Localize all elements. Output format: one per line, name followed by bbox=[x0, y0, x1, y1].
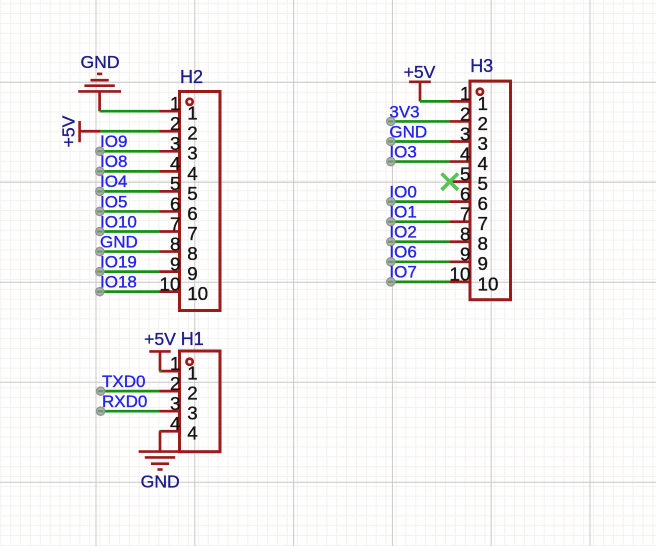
svg-text:3: 3 bbox=[478, 133, 488, 154]
svg-text:1: 1 bbox=[170, 93, 180, 114]
svg-text:8: 8 bbox=[170, 233, 180, 254]
ground symbol GND (H2 pin 1) bbox=[78, 74, 121, 111]
svg-text:8: 8 bbox=[478, 233, 488, 254]
svg-text:H1: H1 bbox=[181, 329, 204, 349]
svg-text:GND: GND bbox=[141, 471, 180, 491]
svg-text:3: 3 bbox=[170, 133, 180, 154]
H2 pin 9 stub bbox=[160, 270, 180, 273]
svg-text:H3: H3 bbox=[470, 56, 493, 76]
H2 pin 4 stub bbox=[160, 170, 180, 173]
svg-text:IO8: IO8 bbox=[100, 152, 127, 171]
dangling wire end at H2 pin 8 net bbox=[96, 247, 104, 255]
svg-text:8: 8 bbox=[187, 243, 197, 264]
H1 pin 2 stub bbox=[160, 390, 180, 393]
H3 pin 3 stub bbox=[450, 140, 470, 143]
H2 pin 6 stub bbox=[160, 210, 180, 213]
dangling wire end at H3 pin 8 net bbox=[387, 238, 395, 246]
svg-text:10: 10 bbox=[450, 264, 471, 285]
H3 pin 1 polarity marker bbox=[477, 89, 483, 95]
svg-text:2: 2 bbox=[478, 113, 488, 134]
svg-text:2: 2 bbox=[170, 373, 180, 394]
wire net IO8 to H2 pin 4 bbox=[104, 170, 160, 173]
dangling wire end at H2 pin 3 net bbox=[96, 147, 104, 155]
H3 pin 9 stub bbox=[450, 260, 470, 263]
dangling wire end at H2 pin 10 net bbox=[96, 288, 104, 296]
svg-text:3: 3 bbox=[187, 143, 197, 164]
svg-text:5: 5 bbox=[478, 173, 488, 194]
svg-text:4: 4 bbox=[478, 153, 488, 174]
wire net 3V3 to H3 pin 2 bbox=[395, 120, 450, 123]
wire net GND to H2 pin 8 bbox=[104, 250, 160, 253]
H3 pin 5 stub bbox=[450, 180, 470, 183]
wire net IO0 to H3 pin 6 bbox=[395, 200, 450, 203]
svg-text:9: 9 bbox=[187, 263, 197, 284]
svg-text:IO4: IO4 bbox=[100, 172, 127, 191]
H3 pin 1 stub bbox=[450, 100, 470, 103]
H3 pin 7 stub bbox=[450, 220, 470, 223]
svg-text:2: 2 bbox=[170, 113, 180, 134]
ground symbol GND (H1 pin 4) bbox=[139, 431, 182, 469]
svg-text:9: 9 bbox=[478, 253, 488, 274]
supply symbol +5V (H2 pin 2) bbox=[80, 121, 101, 142]
dangling wire end at H3 pin 4 net bbox=[387, 157, 395, 165]
dangling wire end at H2 pin 5 net bbox=[96, 187, 104, 195]
dangling wire end at H3 pin 9 net bbox=[387, 258, 395, 266]
svg-text:1: 1 bbox=[478, 93, 488, 114]
svg-text:1: 1 bbox=[187, 363, 197, 384]
H1 pin 1 stub bbox=[160, 370, 180, 373]
svg-text:6: 6 bbox=[460, 183, 470, 204]
H3 pin 10 stub bbox=[450, 281, 470, 284]
svg-text:+5V: +5V bbox=[58, 115, 78, 147]
wire end dot at H1 pin 4 corner bbox=[159, 430, 161, 432]
wire net IO2 to H3 pin 8 bbox=[395, 240, 450, 243]
svg-text:GND: GND bbox=[80, 52, 119, 72]
wire +5V to H3 pin 1 bbox=[420, 100, 450, 103]
svg-text:4: 4 bbox=[187, 163, 197, 184]
wire net IO10 to H2 pin 7 bbox=[104, 230, 160, 233]
svg-text:8: 8 bbox=[460, 224, 470, 245]
svg-text:9: 9 bbox=[460, 244, 470, 265]
dangling wire end at H1 pin 2 net bbox=[97, 387, 105, 395]
svg-text:1: 1 bbox=[187, 103, 197, 124]
wire net IO9 to H2 pin 3 bbox=[104, 150, 160, 153]
svg-text:10: 10 bbox=[160, 273, 181, 294]
connector H2 body bbox=[180, 92, 221, 311]
dangling wire end at H3 pin 7 net bbox=[387, 218, 395, 226]
svg-text:IO18: IO18 bbox=[100, 272, 137, 291]
svg-text:10: 10 bbox=[478, 273, 499, 294]
svg-text:GND: GND bbox=[100, 232, 138, 251]
svg-text:GND: GND bbox=[389, 122, 427, 141]
svg-text:4: 4 bbox=[170, 153, 180, 174]
connector H3 body bbox=[470, 81, 511, 300]
connector H1 body bbox=[180, 351, 221, 452]
H2 pin 8 stub bbox=[160, 250, 180, 253]
svg-text:RXD0: RXD0 bbox=[102, 392, 147, 411]
wire +5V to H2 pin 2 bbox=[101, 130, 160, 133]
svg-text:5: 5 bbox=[187, 183, 197, 204]
H3 pin 4 stub bbox=[450, 160, 470, 163]
svg-text:TXD0: TXD0 bbox=[102, 372, 145, 391]
wire net RXD0 to H1 pin 3 bbox=[105, 410, 160, 413]
wire net IO7 to H3 pin 10 bbox=[395, 281, 450, 284]
svg-text:3: 3 bbox=[187, 403, 197, 424]
svg-text:IO10: IO10 bbox=[100, 212, 137, 231]
H2 pin 3 stub bbox=[160, 150, 180, 153]
H3 pin 6 stub bbox=[450, 200, 470, 203]
svg-text:9: 9 bbox=[170, 253, 180, 274]
wire GND to H2 pin 1 bbox=[100, 110, 160, 113]
wire net IO6 to H3 pin 9 bbox=[395, 260, 450, 263]
svg-text:1: 1 bbox=[460, 83, 470, 104]
svg-text:IO5: IO5 bbox=[100, 192, 127, 211]
H1 pin 4 stub bbox=[160, 430, 180, 433]
H2 pin 1 polarity marker bbox=[187, 99, 193, 105]
svg-text:4: 4 bbox=[170, 413, 180, 434]
wire net IO1 to H3 pin 7 bbox=[395, 220, 450, 223]
H3 pin 2 stub bbox=[450, 120, 470, 123]
dangling wire end at H3 pin 10 net bbox=[387, 278, 395, 286]
dangling wire end at H3 pin 2 net bbox=[387, 117, 395, 125]
svg-text:IO19: IO19 bbox=[100, 252, 137, 271]
svg-text:5: 5 bbox=[460, 163, 470, 184]
H1 pin 3 stub bbox=[160, 410, 180, 413]
svg-text:3: 3 bbox=[170, 393, 180, 414]
supply symbol +5V (H1 pin 1) bbox=[149, 351, 170, 371]
svg-text:7: 7 bbox=[187, 223, 197, 244]
wire net IO19 to H2 pin 9 bbox=[104, 270, 160, 273]
wire net TXD0 to H1 pin 2 bbox=[105, 390, 160, 393]
svg-text:1: 1 bbox=[170, 353, 180, 374]
svg-text:4: 4 bbox=[187, 423, 197, 444]
dangling wire end at H2 pin 4 net bbox=[96, 167, 104, 175]
H2 pin 2 stub bbox=[160, 130, 180, 133]
H2 pin 5 stub bbox=[160, 190, 180, 193]
svg-text:2: 2 bbox=[187, 123, 197, 144]
wire net IO5 to H2 pin 6 bbox=[104, 210, 160, 213]
svg-text:2: 2 bbox=[460, 103, 470, 124]
svg-text:7: 7 bbox=[170, 213, 180, 234]
svg-text:IO9: IO9 bbox=[100, 132, 127, 151]
svg-text:5: 5 bbox=[170, 173, 180, 194]
svg-text:6: 6 bbox=[478, 193, 488, 214]
wire net IO18 to H2 pin 10 bbox=[104, 290, 160, 293]
H2 pin 10 stub bbox=[160, 290, 180, 293]
cursor cross marker at H3 pin 5 bbox=[442, 174, 458, 190]
dangling wire end at H1 pin 3 net bbox=[97, 407, 105, 415]
dangling wire end at H2 pin 7 net bbox=[96, 227, 104, 235]
wire net IO4 to H2 pin 5 bbox=[104, 190, 160, 193]
H3 pin 8 stub bbox=[450, 240, 470, 243]
H2 pin 7 stub bbox=[160, 230, 180, 233]
dangling wire end at H2 pin 6 net bbox=[96, 207, 104, 215]
svg-text:6: 6 bbox=[170, 193, 180, 214]
supply symbol +5V (H3 pin 1) bbox=[409, 82, 431, 102]
svg-text:6: 6 bbox=[187, 203, 197, 224]
dangling wire end at H2 pin 9 net bbox=[96, 268, 104, 276]
H1 pin 1 polarity marker bbox=[187, 359, 193, 365]
svg-text:+5V: +5V bbox=[404, 62, 436, 82]
svg-text:3: 3 bbox=[460, 123, 470, 144]
svg-text:+5V: +5V bbox=[144, 329, 176, 349]
dangling wire end at H3 pin 6 net bbox=[387, 198, 395, 206]
svg-text:2: 2 bbox=[187, 383, 197, 404]
svg-text:7: 7 bbox=[460, 204, 470, 225]
svg-text:7: 7 bbox=[478, 213, 488, 234]
svg-text:4: 4 bbox=[460, 143, 470, 164]
dangling wire end at H3 pin 3 net bbox=[387, 137, 395, 145]
wire net GND to H3 pin 3 bbox=[395, 140, 450, 143]
wire end dot at H1 pin 1 corner bbox=[159, 370, 161, 372]
svg-text:10: 10 bbox=[187, 283, 208, 304]
H2 pin 1 stub bbox=[160, 110, 180, 113]
svg-text:H2: H2 bbox=[180, 67, 203, 87]
wire net IO3 to H3 pin 4 bbox=[395, 160, 450, 163]
